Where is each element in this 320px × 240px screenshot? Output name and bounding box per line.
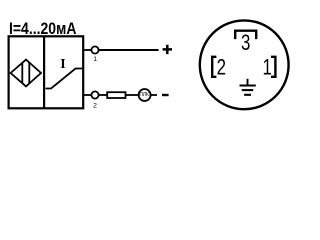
load resistor R xyxy=(107,92,125,98)
wire resistor to PLC xyxy=(126,94,139,96)
ground bar middle xyxy=(242,89,254,91)
inductive sensing element (diamond) xyxy=(11,60,41,87)
svg-text:3: 3 xyxy=(241,31,250,56)
minus polarity sign xyxy=(162,94,169,96)
svg-text:1: 1 xyxy=(93,56,97,63)
current ramp characteristic xyxy=(46,69,83,89)
pin 2 contact bracket xyxy=(212,57,216,77)
wire terminal 1 to plus xyxy=(99,49,159,51)
svg-text:I=4...20мА: I=4...20мА xyxy=(9,19,77,38)
ground symbol stem xyxy=(247,79,249,86)
pin 3 contact bracket xyxy=(235,31,256,39)
svg-text:2: 2 xyxy=(217,55,226,80)
pin 1 contact bracket xyxy=(271,57,275,77)
sensor body box xyxy=(9,36,84,108)
diamond inner line right xyxy=(28,63,30,84)
PLC input circle xyxy=(139,89,151,101)
svg-text:ПЛК: ПЛК xyxy=(139,92,149,98)
connector face circle xyxy=(200,20,289,109)
wire terminal 2 to load resistor xyxy=(99,94,107,96)
wire box to terminal 1 xyxy=(83,49,91,51)
wire PLC to minus xyxy=(151,94,157,96)
ground bar bottom xyxy=(244,94,251,96)
pin 1 number xyxy=(263,55,272,80)
svg-text:2: 2 xyxy=(93,102,97,109)
terminal 1 circle xyxy=(91,46,98,53)
wire box to terminal 2 xyxy=(83,94,91,96)
svg-text:1: 1 xyxy=(263,55,272,80)
diamond inner line left xyxy=(21,63,23,83)
plus polarity sign xyxy=(163,45,172,54)
ground bar top xyxy=(240,84,256,86)
pin 3 number xyxy=(241,31,250,56)
pin 2 number xyxy=(217,55,226,80)
terminal 2 circle xyxy=(91,91,98,98)
cell divider wire xyxy=(43,36,45,108)
svg-text:I: I xyxy=(60,57,65,72)
